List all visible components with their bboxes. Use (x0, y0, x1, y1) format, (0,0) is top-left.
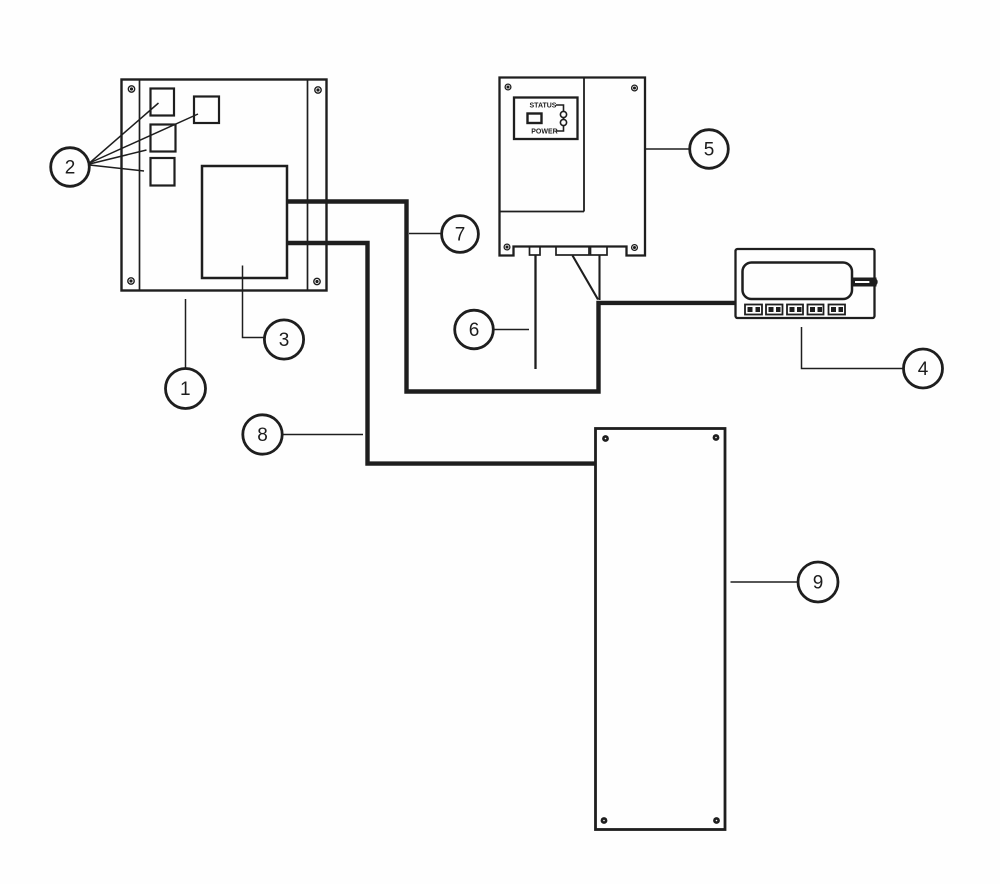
svg-text:1: 1 (180, 379, 191, 400)
svg-text:5: 5 (704, 140, 715, 161)
svg-text:3: 3 (279, 330, 290, 351)
svg-text:STATUS: STATUS (530, 103, 557, 110)
svg-text:7: 7 (455, 225, 466, 246)
svg-text:POWER: POWER (531, 129, 557, 136)
svg-text:9: 9 (813, 573, 824, 594)
svg-text:2: 2 (65, 158, 76, 179)
svg-text:8: 8 (257, 425, 268, 446)
svg-text:4: 4 (918, 359, 929, 380)
svg-text:6: 6 (469, 320, 480, 341)
